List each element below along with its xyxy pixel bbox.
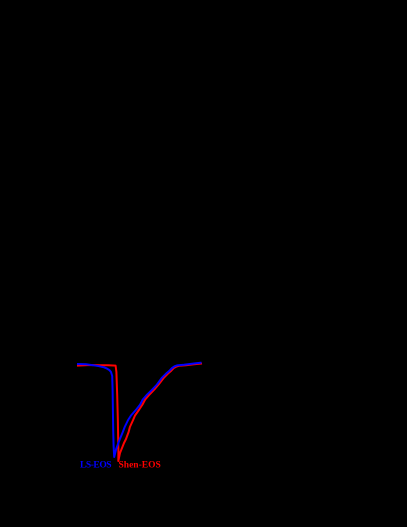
svg-text:Shen-EOS: Shen-EOS — [119, 461, 161, 471]
svg-text:LS-EOS: LS-EOS — [80, 461, 111, 471]
